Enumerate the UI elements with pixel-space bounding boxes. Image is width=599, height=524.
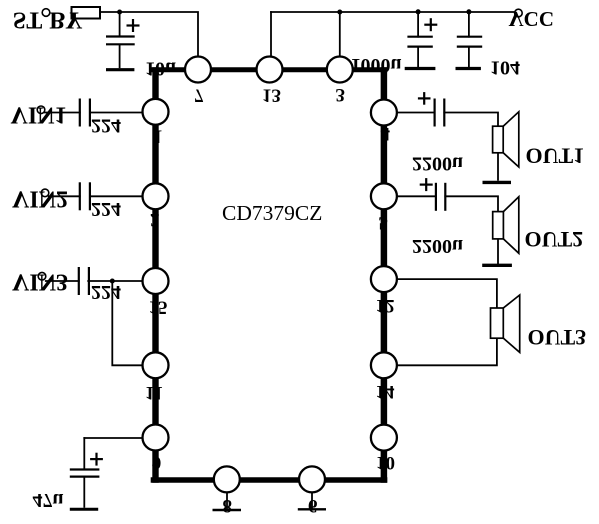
svg-text:224: 224 (91, 115, 121, 137)
value label 104 (490, 57, 520, 79)
net label OUT2 (525, 227, 584, 252)
svg-text:OUT2: OUT2 (525, 227, 584, 252)
ground under C3 (405, 67, 436, 70)
svg-text:104: 104 (490, 57, 520, 79)
wire pin 6 to ground (311, 492, 313, 509)
wire C7 to pin 15 via node A (88, 280, 142, 282)
wire pin 14 to speaker SP3 bottom (397, 338, 497, 365)
capacitor C3 1000u electrolytic (407, 18, 437, 67)
pin number 11 (145, 382, 163, 403)
pin number 9 (152, 452, 162, 473)
net label OUT3 (528, 325, 587, 350)
value label 224 C6 (91, 198, 121, 220)
wire C8 47u to pin 9 (84, 437, 142, 439)
wire C10 to speaker SP2 (445, 196, 498, 211)
net label VIN1 (11, 102, 67, 128)
wire riser to pin 3 (339, 12, 341, 57)
wire ST-BY rail to pin 7 riser (100, 12, 198, 57)
wire VIN2 to C6 (49, 195, 80, 197)
junction node ST-BY/C2 (117, 10, 122, 15)
svg-text:7: 7 (194, 85, 204, 106)
svg-text:BY: BY (49, 7, 82, 33)
value label 1000u (351, 54, 402, 76)
pin number 1 (153, 126, 163, 147)
value label 10u (145, 58, 176, 80)
wire VCC rail (271, 11, 514, 13)
pin 15 pad (143, 268, 169, 294)
pin 10 pad (371, 425, 397, 451)
pin number 2 (150, 209, 160, 230)
svg-text:2200u: 2200u (412, 153, 463, 175)
pin 3 pad (327, 57, 353, 83)
svg-text:224: 224 (91, 281, 121, 303)
svg-text:ST: ST (13, 6, 42, 32)
wire C9 to speaker SP1 (444, 113, 498, 127)
pin 2 pad (143, 183, 169, 209)
junction node VCC/C3 (416, 9, 421, 14)
pin number 5 (379, 212, 389, 233)
wire riser to pin 13 (270, 12, 272, 57)
pin 11 pad (143, 352, 169, 378)
net label VCC (509, 7, 555, 31)
svg-text:224: 224 (91, 198, 121, 220)
capacitor C10 2200u electrolytic output 2 (420, 178, 446, 211)
value label 47u (33, 489, 64, 511)
wire VIN1 to C5 (45, 112, 80, 114)
capacitor C6 224 input 2 (80, 182, 90, 210)
svg-text:1: 1 (153, 126, 163, 147)
capacitor C5 224 input 1 (80, 99, 90, 127)
node A junction VIN3/pin15/pin11 (110, 279, 115, 284)
terminal ring VIN1 (37, 106, 45, 114)
pin number 8 (223, 495, 233, 516)
ground under C4 (456, 67, 481, 70)
wire VIN3 to C7 (46, 280, 79, 282)
wire SP2 to ground (497, 239, 499, 264)
svg-text:10u: 10u (145, 58, 176, 80)
terminal ring VIN3 (38, 272, 46, 280)
value label 224 C7 (91, 281, 121, 303)
pin 5 pad (371, 183, 397, 209)
capacitor C4 104 (457, 37, 482, 67)
ground under SP2 (482, 264, 512, 267)
IC U1 CD7379CZ body outline (151, 67, 388, 483)
speaker SP2 OUT2 (493, 197, 519, 254)
junction node VCC/C4 (466, 9, 471, 14)
svg-text:15: 15 (149, 297, 168, 318)
svg-text:CD7379CZ: CD7379CZ (222, 201, 322, 225)
terminal ring ST-BY (42, 9, 50, 17)
svg-text:OUT3: OUT3 (528, 325, 587, 350)
svg-text:1000u: 1000u (351, 54, 402, 76)
pin number 12 (376, 295, 395, 316)
svg-text:11: 11 (145, 382, 163, 403)
pin 12 pad (371, 266, 397, 292)
svg-text:12: 12 (376, 295, 395, 316)
wire stub to C2 10u (119, 12, 121, 37)
svg-text:47u: 47u (33, 489, 64, 511)
svg-text:2: 2 (150, 209, 160, 230)
pin number 7 (194, 85, 204, 106)
pin 13 pad (257, 57, 283, 83)
svg-text:3: 3 (336, 84, 346, 105)
wire pin 5 to C10 2200u (397, 195, 436, 197)
svg-text:10: 10 (376, 452, 395, 473)
svg-text:5: 5 (379, 212, 389, 233)
resistor R1 ST-BY (72, 7, 101, 19)
wire SP1 to ground (497, 153, 499, 180)
ground under C8 (70, 508, 98, 511)
svg-text:9: 9 (152, 452, 162, 473)
svg-text:4: 4 (381, 123, 391, 144)
pin number 14 (376, 381, 396, 402)
svg-text:OUT1: OUT1 (526, 143, 585, 168)
svg-text:VCC: VCC (509, 7, 555, 31)
svg-text:14: 14 (376, 381, 396, 402)
svg-text:VIN3: VIN3 (12, 269, 68, 295)
wire stub to C3 1000u (417, 12, 419, 37)
svg-text:13: 13 (262, 85, 281, 106)
value label 2200u C10 (412, 235, 463, 257)
svg-text:8: 8 (223, 495, 233, 516)
wire C5 to pin 1 (90, 112, 143, 114)
pin number 4 (381, 123, 391, 144)
pin 4 pad (371, 100, 397, 126)
ground under C2 (106, 68, 134, 71)
ground under SP1 (483, 181, 512, 184)
wire pin 8 to ground (226, 492, 228, 509)
svg-text:6: 6 (308, 495, 318, 516)
wire stub to C4 104 (468, 12, 470, 37)
pin number 13 (262, 85, 281, 106)
capacitor C8 47u electrolytic (70, 453, 103, 508)
pin number 10 (376, 452, 395, 473)
terminal ring VCC (515, 9, 523, 17)
wire C6 to pin 2 (90, 195, 143, 197)
svg-text:VIN2: VIN2 (12, 186, 68, 212)
value label 224 C5 (91, 115, 121, 137)
terminal ring VIN2 (41, 189, 49, 197)
wire node A down to pin 11 (112, 281, 142, 365)
wire down to C8 47u (83, 438, 85, 469)
pin 7 pad (185, 57, 211, 83)
pin 14 pad (371, 352, 397, 378)
net label ST-BY (13, 6, 42, 32)
value label 2200u C9 (412, 153, 463, 175)
ground at pin 6 (298, 508, 326, 510)
wire pin 12 to speaker SP3 top (397, 279, 497, 308)
capacitor C9 2200u electrolytic output 1 (418, 92, 444, 126)
speaker SP3 OUT3 (491, 295, 520, 352)
capacitor C7 224 input 3 (79, 267, 89, 295)
pin number 15 (149, 297, 168, 318)
net label OUT1 (526, 143, 585, 168)
pin number 6 (308, 495, 318, 516)
svg-text:2200u: 2200u (412, 235, 463, 257)
svg-text:VIN1: VIN1 (11, 102, 67, 128)
pin 1 pad (143, 99, 169, 125)
wire pin 4 to C9 2200u (397, 112, 435, 114)
junction node VCC/pin3 (337, 10, 342, 15)
pin 8 pad (214, 466, 240, 492)
ground at pin 8 (213, 509, 242, 512)
pin number 3 (336, 84, 346, 105)
pin 6 pad (299, 466, 325, 492)
net label VIN2 (12, 186, 68, 212)
pin 9 pad (143, 425, 169, 451)
capacitor C2 10u electrolytic (106, 19, 140, 68)
net label VIN3 (12, 269, 68, 295)
speaker SP1 OUT1 (493, 112, 519, 167)
